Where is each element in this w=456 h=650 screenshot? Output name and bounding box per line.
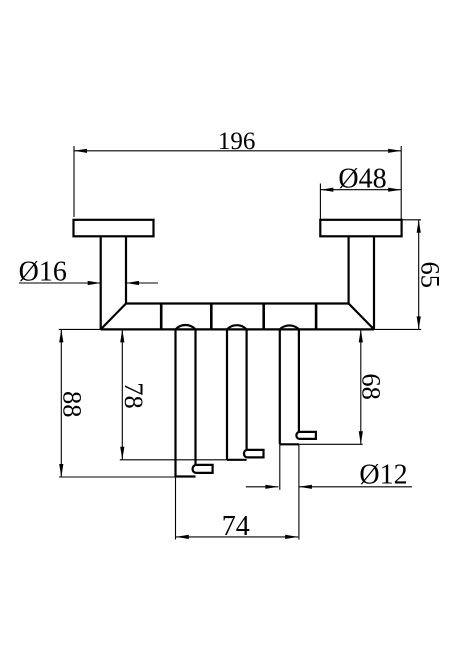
svg-text:196: 196 bbox=[218, 128, 256, 155]
svg-text:74: 74 bbox=[222, 511, 250, 542]
svg-text:88: 88 bbox=[58, 391, 88, 418]
svg-text:Ø12: Ø12 bbox=[359, 460, 407, 491]
svg-text:65: 65 bbox=[415, 261, 445, 288]
svg-text:Ø16: Ø16 bbox=[19, 257, 67, 288]
svg-text:68: 68 bbox=[357, 373, 387, 400]
svg-text:78: 78 bbox=[119, 382, 149, 409]
svg-text:Ø48: Ø48 bbox=[338, 163, 386, 194]
